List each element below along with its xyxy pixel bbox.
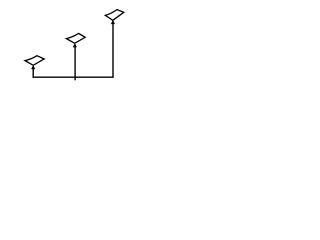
wire: left stem, baseline, right stem <box>33 21 113 77</box>
parallelogram shape 3 (right flag) <box>105 10 124 21</box>
arrowhead into shape 2 <box>73 44 77 48</box>
parallelogram shape 1 (left flag) <box>25 56 44 66</box>
arrowhead into shape 1 <box>31 66 35 70</box>
parallelogram shape 2 (middle flag) <box>66 33 85 43</box>
wire: middle stem (crosses baseline) <box>74 44 76 80</box>
arrowhead into shape 3 <box>111 20 115 24</box>
